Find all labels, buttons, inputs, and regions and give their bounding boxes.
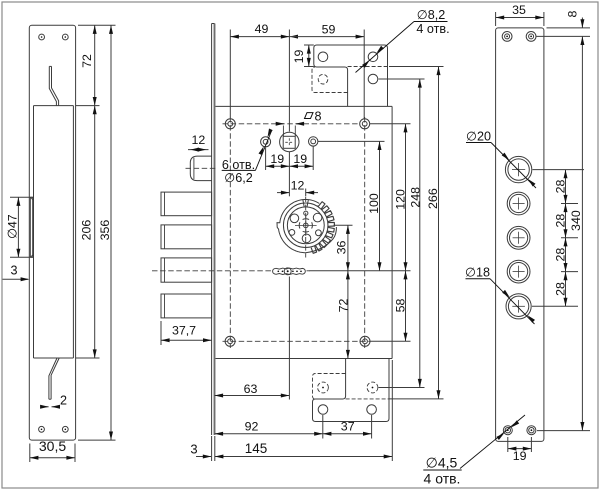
- bottom bracket holes: [318, 382, 378, 414]
- top bracket hidden dashed outline: [312, 67, 388, 93]
- dimension 36: [335, 225, 350, 270]
- cylinder center hub cross: [295, 215, 317, 236]
- svg-text:8: 8: [314, 110, 321, 124]
- dimension 72 right: [337, 271, 351, 359]
- dimension 12 latch: [188, 133, 209, 152]
- body mounting holes 6x dia 6,2: [225, 119, 370, 346]
- dimension chain 28 x4: [532, 170, 584, 307]
- left view faceplate outline: [29, 25, 75, 440]
- dimension 19 bracket: [292, 45, 314, 67]
- svg-text:58: 58: [394, 299, 408, 313]
- keyhole centerline dashed: [152, 270, 310, 272]
- left view top screws: [39, 34, 69, 40]
- dimension 49 top: [230, 22, 298, 131]
- label dia 18 with leader: [465, 266, 535, 324]
- right view cover plate outline: [496, 28, 544, 442]
- deadbolt 1: [161, 192, 212, 216]
- svg-text:19: 19: [513, 449, 527, 463]
- svg-text:∅47: ∅47: [6, 214, 20, 239]
- svg-text:28: 28: [553, 180, 567, 194]
- svg-text:35: 35: [512, 3, 526, 17]
- svg-text:37: 37: [341, 419, 355, 433]
- cylinder pin holes: [289, 211, 322, 243]
- bottom bracket (strike box plate): [313, 359, 390, 422]
- svg-text:3: 3: [10, 264, 17, 278]
- left view cylinder collar bump (47mm side): [30, 197, 33, 257]
- right view top screws: [502, 32, 536, 42]
- keyhole key profile: [273, 268, 306, 275]
- left view bottom screws: [39, 426, 69, 432]
- dimension 8 arrows on centerline: [276, 122, 304, 137]
- label dia 20 with leader: [466, 130, 536, 189]
- svg-text:∅18: ∅18: [465, 266, 490, 280]
- svg-text:∅8,2: ∅8,2: [417, 8, 445, 22]
- svg-text:6 отв.: 6 отв.: [222, 158, 255, 172]
- svg-text:∅4,5: ∅4,5: [426, 455, 458, 471]
- dimension diameter 47: [6, 197, 34, 257]
- left view upper spring wire hook: [49, 66, 58, 105]
- deadbolt 3: [161, 258, 212, 282]
- svg-text:2: 2: [60, 394, 67, 408]
- svg-text:19: 19: [270, 152, 284, 166]
- square spindle hole 8mm with circle: [280, 132, 299, 151]
- dimension 35 right view: [496, 3, 544, 26]
- dimension 92 bottom: [215, 415, 323, 439]
- dimension 120: [394, 124, 408, 271]
- dimension 58: [394, 271, 408, 342]
- dimension 100: [367, 141, 382, 270]
- label square 8: [305, 110, 322, 124]
- dimension 206 left view: [76, 106, 100, 358]
- svg-text:4 отв.: 4 отв.: [424, 471, 461, 487]
- dimension 248: [409, 79, 423, 388]
- dimension 59 top: [289, 22, 364, 118]
- svg-text:72: 72: [337, 299, 351, 313]
- dimension 3 left view (plate thickness): [3, 264, 30, 282]
- label dia 4,5 4 holes with leader: [423, 415, 525, 487]
- dimension 356 left view: [78, 25, 116, 440]
- right view hole circle 1 dia 20: [505, 156, 531, 182]
- cylinder inner circle: [287, 207, 324, 244]
- dimension 2 (wire): [40, 394, 67, 409]
- svg-text:120: 120: [394, 189, 408, 210]
- svg-text:59: 59: [322, 22, 336, 36]
- cylinder ring inner edge circle: [283, 203, 328, 248]
- svg-text:340: 340: [569, 210, 583, 231]
- svg-text:248: 248: [409, 187, 423, 208]
- dashed centerlines of body holes: [223, 117, 371, 348]
- svg-text:28: 28: [553, 214, 567, 228]
- gear teeth arc of cylinder ring: [311, 202, 334, 254]
- svg-text:49: 49: [255, 22, 269, 36]
- label dia 8,2 4 holes with leader: [356, 8, 450, 73]
- dimension 19 19 spindle holes: [266, 147, 314, 171]
- svg-text:∅6,2: ∅6,2: [224, 171, 252, 185]
- left view lower wire (2mm): [49, 358, 59, 399]
- svg-text:30,5: 30,5: [39, 438, 66, 454]
- cylinder vertical centerline: [305, 197, 307, 258]
- right side extension lines: [310, 67, 444, 399]
- svg-text:63: 63: [244, 382, 258, 396]
- dimension 3 faceplate bottom: [190, 436, 214, 461]
- svg-text:28: 28: [553, 248, 567, 262]
- dimension 12 cylinder offset: [277, 152, 318, 196]
- right view hole circle 4: [507, 260, 530, 283]
- dimension 72 left view: [76, 25, 116, 105]
- dimension 37 bottom bracket holes: [323, 415, 372, 439]
- svg-text:37,7: 37,7: [172, 324, 196, 338]
- svg-text:12: 12: [192, 133, 206, 147]
- cylinder top tab: [303, 199, 309, 207]
- dimension 145 bottom: [215, 360, 392, 461]
- right view hole circle 5 dia 18: [506, 294, 531, 319]
- middle view faceplate edge (front strip): [212, 24, 215, 436]
- svg-text:3: 3: [190, 442, 197, 457]
- svg-text:206: 206: [80, 220, 94, 241]
- svg-text:12: 12: [291, 179, 305, 193]
- label 6 holes dia 6,2 with leader: [222, 129, 273, 186]
- svg-text:92: 92: [245, 419, 259, 433]
- top bracket (strike box plate): [314, 45, 388, 106]
- top bracket holes: [318, 52, 378, 84]
- svg-text:266: 266: [426, 188, 440, 209]
- middle view lock body outline: [216, 106, 393, 358]
- latch bolt (top): [186, 156, 216, 181]
- svg-text:100: 100: [367, 193, 381, 214]
- bottom bracket hidden dashed outline: [313, 374, 390, 400]
- deadbolt 4: [161, 294, 212, 318]
- right view hole circle 3: [507, 226, 530, 249]
- dimension 8 right view: [537, 10, 591, 36]
- dimension 266: [426, 67, 440, 399]
- svg-text:8: 8: [566, 10, 580, 17]
- svg-text:19: 19: [292, 50, 306, 64]
- dimension 19 right view bottom: [508, 437, 532, 463]
- cylinder escutcheon disc outer contour: [277, 200, 336, 253]
- svg-text:∅20: ∅20: [466, 130, 491, 144]
- svg-text:19: 19: [293, 152, 307, 166]
- dimension 340 right view: [537, 36, 590, 430]
- left view lock box (inner rectangle): [34, 106, 74, 358]
- svg-text:36: 36: [335, 241, 349, 255]
- dimension 30,5 bottom of left view: [30, 438, 75, 462]
- svg-text:4 отв.: 4 отв.: [416, 22, 449, 36]
- svg-text:72: 72: [80, 54, 94, 68]
- svg-text:145: 145: [245, 441, 268, 456]
- right view bottom screws: [503, 426, 536, 435]
- svg-text:356: 356: [98, 220, 112, 241]
- dimension 37,7 bolts throw: [161, 321, 212, 345]
- right view hole circle 2: [507, 192, 530, 215]
- svg-text:28: 28: [553, 282, 567, 296]
- deadbolt 2: [161, 225, 212, 249]
- dimension 63 bottom: [215, 277, 290, 400]
